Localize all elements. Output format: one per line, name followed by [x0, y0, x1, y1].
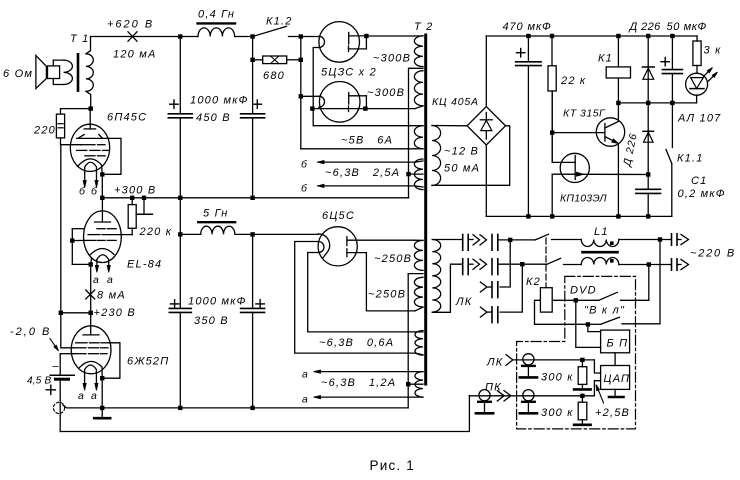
svg-text:ЛК: ЛК	[486, 357, 503, 369]
node dot 1,2А tap	[406, 382, 410, 386]
node dot mains out2	[647, 262, 651, 266]
relay К1 coil	[617, 36, 619, 67]
svg-text:б: б	[79, 186, 86, 198]
LED arrows	[704, 69, 712, 77]
transformer T1 secondary winding	[53, 60, 63, 66]
choke L 0,4 Гн winding	[198, 28, 235, 37]
relay К2 coil	[540, 288, 552, 312]
block БП	[601, 330, 630, 353]
wire +620 rail	[91, 36, 199, 38]
svg-text:ЦАП: ЦАП	[604, 373, 631, 385]
node row wire	[618, 102, 696, 104]
capacitor 50 мкФ	[671, 36, 673, 70]
tube 6П45С beam plate to cathode loop	[102, 138, 121, 174]
node dot 2,5А tap	[406, 172, 410, 176]
fusible resistor 680 with X	[253, 59, 263, 61]
svg-text:450 В: 450 В	[196, 112, 231, 124]
diode Д226 #1	[647, 36, 649, 103]
tube 5Ц3С #2 envelope	[319, 82, 360, 123]
ЦАП input stub 1	[594, 360, 600, 373]
switch mains pole1 blade	[535, 234, 549, 240]
node dot 5Гн left	[178, 232, 182, 236]
node dot EL-84 cathode	[89, 262, 93, 266]
tube EL-84 cathode arc	[91, 249, 115, 255]
svg-text:EL-84: EL-84	[127, 259, 162, 271]
T2 12В winding	[432, 126, 441, 186]
node dots ground rail	[178, 406, 182, 410]
DVD unit dash-dot boundary	[517, 276, 636, 429]
fuse point X on +620 rail	[128, 32, 137, 41]
svg-text:DVD: DVD	[570, 285, 597, 297]
DC feedback line from 6П45С grid	[60, 145, 62, 313]
tube EL-84 grid rows	[97, 228, 105, 230]
wire bridge bottom to -rail	[485, 145, 487, 216]
choke L1 bottom winding	[581, 258, 619, 265]
svg-text:+620 В: +620 В	[107, 19, 154, 31]
wire anode join #2	[365, 96, 367, 109]
node dot ЛК/300к	[580, 358, 584, 362]
connector bars pair A row2	[462, 259, 464, 275]
svg-text:~6,3В 1,2А: ~6,3В 1,2А	[321, 377, 396, 389]
tube 6Ж52П grid lead to battery	[60, 353, 74, 355]
plug bars row1	[671, 234, 673, 245]
2,5А winding stubs	[415, 161, 423, 162]
svg-text:6Ж52П: 6Ж52П	[127, 356, 169, 368]
L1 polarity dot bottom	[610, 259, 614, 263]
mains branch to DVD row3	[500, 240, 510, 287]
node dot anode/T1/220	[89, 106, 93, 110]
node dot anode #1	[364, 34, 368, 38]
bottom signal rail from battery to ПК jack	[60, 396, 469, 432]
svg-text:3 к: 3 к	[704, 45, 722, 57]
screen bypass tap bar	[143, 198, 145, 214]
svg-text:470 мкФ: 470 мкФ	[503, 21, 552, 33]
svg-text:~12 В: ~12 В	[444, 146, 479, 158]
connector bars row4	[491, 307, 493, 323]
- rail bottom right block	[486, 215, 672, 217]
plug chevron row1	[681, 234, 689, 244]
svg-text:4,5 В: 4,5 В	[27, 376, 51, 387]
svg-text:Рис. 1: Рис. 1	[370, 458, 416, 473]
tube EL-84 envelope	[84, 211, 122, 263]
wire anode join #1	[365, 36, 367, 49]
connector bars pair B row2	[491, 259, 493, 275]
svg-text:350 В: 350 В	[194, 315, 229, 327]
wire bridge top to +rail	[485, 36, 487, 107]
T2 250В winding #2	[414, 277, 423, 307]
svg-text:22 к: 22 к	[560, 75, 586, 87]
connector chevron row3	[480, 282, 487, 292]
T2 6,3В 1,2А winding	[415, 372, 423, 398]
svg-text:б: б	[301, 183, 308, 195]
wire primary bottom loop	[432, 264, 462, 312]
transistor КП103ЭЛ	[560, 153, 589, 182]
transformer T1 primary winding	[86, 54, 93, 92]
svg-text:~6,3В 2,5А: ~6,3В 2,5А	[325, 167, 400, 179]
wire mains2 down to Вкл pole1	[621, 265, 649, 301]
wire 12В winding to bridge	[432, 125, 467, 127]
svg-text:~300В: ~300В	[373, 53, 411, 65]
svg-text:К1.2: К1.2	[266, 16, 293, 28]
L1 polarity dot top	[610, 241, 614, 245]
resistor 220к screen feed	[131, 198, 133, 205]
wire K1.2 contact to 5Ц3С	[289, 36, 319, 38]
svg-text:50 мкФ: 50 мкФ	[667, 21, 707, 33]
transformer T2 core	[424, 35, 427, 384]
svg-text:К1.1: К1.1	[677, 153, 704, 165]
0,6А winding stubs	[415, 331, 423, 333]
tube 6Ц5С heater	[319, 242, 325, 253]
wire 12В winding bottom loop	[432, 126, 510, 186]
node dots + rail	[526, 34, 530, 38]
T2 5В winding	[414, 126, 423, 149]
switch Вкл pole1	[574, 298, 578, 302]
svg-text:б: б	[301, 159, 308, 171]
wire EL-84 screen to 220к	[121, 234, 132, 236]
tube 6Ж52П envelope	[71, 326, 111, 374]
node dots - rail	[526, 214, 530, 218]
battery 4,5 В	[59, 354, 61, 374]
tube 5Ц3С #1 filament return	[313, 48, 319, 109]
svg-text:a: a	[78, 390, 85, 402]
tube 5Ц3С #2 anode 1	[348, 93, 350, 105]
wire to T2 300В top	[366, 35, 414, 37]
tube 5Ц3С #1 anode 2	[348, 46, 350, 52]
jack ПК external	[479, 390, 490, 401]
tube 6Ж52П heater lead a 2	[95, 373, 97, 389]
node dots +230	[89, 311, 93, 315]
tube 5Ц3С #1 anode 1	[348, 33, 350, 45]
ПК plug chevrons	[497, 391, 511, 401]
block ЦАП	[601, 366, 630, 390]
+300 bus wire	[102, 197, 408, 199]
T2 6,3В 2,5А winding	[414, 159, 423, 190]
tube 6Ж52П grid rows	[76, 342, 87, 344]
node dots on +300 bus	[100, 196, 104, 200]
К2 coil lead right	[552, 299, 576, 301]
tube EL-84 heater	[97, 255, 109, 260]
svg-text:8 мА: 8 мА	[97, 290, 126, 302]
wire cap450-2 top lead / 680 column	[252, 37, 254, 114]
ЦАП input stub 2	[594, 381, 600, 396]
wire cathode-anode DC link	[90, 264, 92, 312]
wire K1.2 column to tube2	[301, 95, 319, 97]
node dot ПК/300к	[580, 394, 584, 398]
T2 6,3В 0,6А winding	[415, 331, 423, 356]
relay K2 gang dashed link	[545, 238, 547, 288]
choke L 0,4 Гн core bar	[198, 22, 236, 24]
node dot C1	[646, 172, 650, 176]
svg-text:220 к: 220 к	[139, 226, 173, 238]
switch К1.1	[671, 103, 673, 148]
wire 5В return column x300.8	[300, 37, 302, 149]
svg-text:300 к: 300 к	[541, 407, 574, 419]
connector chevron row4	[480, 307, 487, 317]
capacitor 1000мкФ 350В #2	[252, 234, 254, 308]
К2 coil lead left	[535, 300, 588, 324]
node dot mains sw2	[520, 262, 524, 266]
tube 6Ж52П heater lead a 1	[84, 373, 86, 389]
svg-text:6Ц5С: 6Ц5С	[322, 210, 355, 222]
tube 5Ц3С #2 filament	[319, 96, 325, 107]
svg-text:1000 мкФ: 1000 мкФ	[188, 296, 247, 308]
heater lead a 2	[316, 396, 424, 398]
resistor 300к #1	[581, 360, 583, 367]
svg-text:6П45С: 6П45С	[107, 112, 147, 124]
capacitor 1000мкФ 450В #1	[179, 37, 181, 114]
heater winding lead б 1	[319, 161, 415, 163]
heater lead a 1	[316, 371, 424, 373]
svg-text:~220 В: ~220 В	[690, 248, 736, 260]
wire to L1 top	[552, 239, 582, 241]
svg-text:0,4 Гн: 0,4 Гн	[198, 9, 235, 21]
tube 5Ц3С #2 anode 2	[348, 106, 350, 112]
wire 5Гн right to 6Ц5С cathode	[235, 233, 318, 235]
wire 220 bottom to grid and DC line	[61, 138, 82, 145]
tube EL-84 heater lead a 2	[108, 260, 110, 271]
switch Вкл pole2	[586, 322, 590, 326]
tube 6Ж52П g3-cathode loop	[102, 343, 120, 378]
capacitor 1000мкФ 350В #1	[169, 307, 191, 309]
tube 5Ц3С #1 filament	[319, 36, 325, 47]
connector bars pair B row1	[491, 235, 493, 251]
svg-text:+300 В: +300 В	[114, 185, 156, 197]
wire L1 top to plug	[619, 239, 672, 241]
bridge КЦ405А	[467, 107, 505, 145]
node dot mains sw1	[508, 238, 512, 242]
tube 6П45С heater lead б 2	[96, 173, 98, 186]
ЛК input chevron	[506, 355, 513, 366]
choke 5 Гн core bar	[198, 221, 235, 223]
wire mains1 down to Вкл pole2	[622, 240, 660, 324]
ЛК signal wire	[513, 359, 595, 361]
T2 250В winding #1	[414, 240, 423, 270]
svg-text:300 к: 300 к	[541, 372, 574, 384]
wire Вкл out2 to БП	[576, 300, 601, 347]
wire cathode to ground rail	[101, 378, 103, 408]
tube 6Ж52П cathode arc	[80, 361, 103, 378]
choke 5 Гн winding	[201, 226, 235, 234]
tube 6П45С cathode arc	[78, 159, 103, 174]
switch K1.2 blade	[255, 26, 287, 36]
wire 300В bottom lead	[312, 108, 415, 110]
svg-text:~6,3В 0,6А: ~6,3В 0,6А	[319, 337, 394, 349]
capacitor 1000мкФ 450В #2	[241, 113, 265, 115]
svg-text:+2,5В: +2,5В	[595, 407, 630, 419]
node dot rectifier output	[250, 232, 254, 236]
wire БП-ЦАП	[614, 353, 616, 366]
wire 5В bottom return	[301, 148, 415, 150]
svg-text:С1: С1	[691, 175, 707, 187]
tube 6Ж52П heater	[85, 365, 97, 373]
tube EL-84 heater lead a 1	[96, 260, 98, 271]
ПК signal wire	[469, 395, 594, 397]
node dot 6Ж52П cathode	[100, 376, 104, 380]
mains branch to DVD row4	[500, 264, 522, 312]
tube 6Ц5С heater lead 2	[308, 253, 415, 332]
fuse point X 8мА	[86, 290, 95, 299]
transistor КТ315Г	[596, 118, 624, 146]
plug bars row2	[671, 259, 673, 270]
node dot rail/cap450-1	[178, 34, 182, 38]
svg-text:a: a	[107, 274, 114, 286]
connector chevrons row1	[473, 235, 487, 245]
choke L1 top winding	[581, 240, 619, 247]
svg-text:АЛ 107: АЛ 107	[677, 113, 722, 125]
tube 6П45С heater	[85, 162, 97, 172]
wire +230 to DC feedback line	[61, 312, 91, 314]
wire filament column to 5В winding	[313, 109, 415, 126]
node dot EL-84 g1	[70, 238, 74, 242]
svg-text:К2: К2	[526, 276, 541, 288]
node dot K1.2 out	[299, 34, 303, 38]
svg-text:50 мА: 50 мА	[444, 163, 480, 175]
svg-text:–: –	[53, 361, 60, 373]
node dot 6П45С cathode	[100, 172, 104, 176]
connector bars pair A row1	[462, 235, 464, 251]
tube EL-84 anode	[101, 198, 103, 222]
shield circle at input corner	[53, 402, 64, 413]
wire g2 strap 6Ж52П	[61, 313, 74, 348]
svg-text:a: a	[302, 394, 309, 406]
svg-text:~5В 6А: ~5В 6А	[341, 135, 393, 147]
svg-text:-2,0 В: -2,0 В	[10, 326, 51, 338]
svg-text:a: a	[93, 274, 100, 286]
250В center tap	[408, 274, 423, 408]
tube 6П45С heater lead б 1	[84, 173, 86, 186]
svg-text:К1: К1	[598, 53, 613, 65]
wire rail after 0,4Гн to K1.2	[235, 36, 254, 38]
svg-text:Т 2: Т 2	[414, 21, 434, 33]
wire cap2 bottom to +300 bus	[252, 118, 254, 198]
capacitor C1 0,2 мкФ	[647, 175, 649, 190]
LED АЛ 107	[686, 73, 708, 95]
winding stub top	[415, 35, 424, 37]
ground rail wire	[63, 405, 408, 408]
resistor 220 anode-grid	[61, 109, 91, 115]
speaker 6 Ом	[36, 55, 47, 88]
svg-text:680: 680	[263, 70, 285, 82]
node dots tube2	[310, 106, 314, 110]
КП103ЭЛ channel wire	[552, 173, 648, 175]
tube 6Ж52П anode	[90, 313, 92, 335]
plug chevron row2	[681, 259, 689, 269]
ground symbol	[101, 408, 103, 417]
svg-text:Б П: Б П	[607, 338, 629, 350]
node dot rail/cap450-2	[250, 34, 254, 38]
wire 6П45С cathode to +300 bus	[101, 174, 103, 197]
2,5А center tap	[409, 173, 424, 175]
tube 6Ц5С cathode	[318, 234, 329, 258]
winding stub bottom 300В	[415, 106, 423, 109]
5В winding stubs	[415, 125, 423, 127]
svg-text:a: a	[302, 369, 309, 381]
node dot ground rail	[100, 406, 104, 410]
tube 6П45С beam plates	[78, 135, 84, 139]
tube 6П45С grid rows	[81, 144, 95, 146]
T2 HV winding 300В #1	[414, 36, 423, 67]
tube 6Ц5С envelope	[318, 227, 357, 266]
wire T1 top to +620 rail	[86, 37, 91, 54]
resistor 22 к	[551, 36, 553, 66]
wire L1 bottom to plug	[619, 264, 672, 266]
tube 6Ц5С anode 1	[346, 237, 348, 246]
svg-text:КП103ЭЛ: КП103ЭЛ	[560, 193, 607, 205]
node dot mains out1	[658, 237, 662, 241]
EL-84 grid tie loop	[72, 228, 84, 230]
svg-text:+230 В: +230 В	[94, 307, 136, 319]
svg-text:a: a	[91, 390, 98, 402]
wire primary top to connector	[432, 239, 462, 241]
svg-text:6 Ом: 6 Ом	[3, 68, 33, 80]
jack ЛК	[523, 354, 534, 365]
svg-text:Д 226: Д 226	[628, 21, 662, 33]
svg-text:ЛК: ЛК	[455, 296, 472, 308]
svg-text:КТ 315Г: КТ 315Г	[563, 108, 606, 120]
tube 6Ц5С heater lead 1	[295, 242, 415, 354]
T2 HV winding 300В #2	[414, 71, 423, 106]
jack ПК internal	[523, 390, 534, 401]
svg-text:120 мА: 120 мА	[113, 49, 157, 61]
wire Вкл out1 to БП	[588, 324, 601, 331]
svg-text:~300В: ~300В	[367, 87, 405, 99]
switch mains pole2 blade	[547, 258, 561, 264]
connector bars row3	[491, 282, 493, 298]
svg-text:КЦ 405А: КЦ 405А	[432, 96, 479, 108]
svg-text:5ЦЗС х 2: 5ЦЗС х 2	[321, 67, 377, 79]
tube 6Ц5С anode 2	[346, 249, 348, 257]
T2 HV center tap	[409, 68, 424, 198]
ЦАП ground	[614, 389, 616, 396]
250В winding stubs	[415, 239, 423, 241]
tube 6П45С anode	[89, 109, 91, 129]
choke L1 core	[583, 251, 618, 254]
diode Д226 #2 vertical	[647, 103, 649, 175]
tube 6П45С envelope	[70, 124, 109, 171]
svg-text:б: б	[91, 186, 98, 198]
tube 5Ц3С #1 envelope	[319, 22, 360, 63]
label plus battery	[46, 389, 55, 391]
heater winding lead б 2	[319, 185, 415, 187]
+ rail top right	[486, 35, 697, 37]
svg-text:"В к л": "В к л"	[584, 305, 625, 317]
svg-text:Т 1: Т 1	[70, 33, 90, 45]
resistor 3 к	[696, 36, 698, 41]
svg-text:L1: L1	[594, 226, 609, 238]
1,2А winding tap	[408, 383, 423, 385]
transformer T1 core	[77, 54, 80, 90]
wire to L1 bottom	[564, 264, 582, 266]
wire cap1 bottom to +300 bus	[179, 118, 181, 309]
svg-text:0,2 мкФ: 0,2 мкФ	[678, 188, 726, 200]
connector chevrons row2	[473, 259, 487, 269]
svg-text:~250В: ~250В	[374, 253, 412, 265]
svg-text:~250В: ~250В	[368, 289, 406, 301]
svg-text:5 Гн: 5 Гн	[203, 208, 229, 220]
wire T1 bottom to 6П45С anode node	[86, 91, 91, 108]
T2 primary winding right	[432, 240, 440, 313]
wire 5Гн left to +300 column	[180, 233, 200, 235]
svg-text:1000 мкФ: 1000 мкФ	[190, 95, 249, 107]
svg-text:220: 220	[33, 125, 56, 137]
resistor 300к #2	[581, 396, 583, 402]
capacitor 470 мкФ	[527, 36, 529, 62]
wire loop to cathode node	[72, 263, 90, 265]
